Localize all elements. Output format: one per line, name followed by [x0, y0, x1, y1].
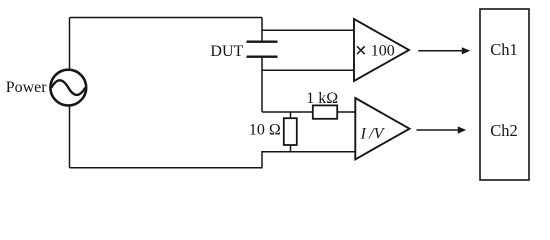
svg-text:100: 100 [371, 42, 395, 59]
svg-text:Power: Power [6, 79, 48, 96]
svg-text:Ch2: Ch2 [490, 121, 518, 140]
svg-text:I /V: I /V [360, 125, 386, 142]
svg-text:Ch1: Ch1 [490, 40, 518, 59]
svg-text:1 kΩ: 1 kΩ [306, 90, 338, 107]
svg-text:10 Ω: 10 Ω [249, 121, 281, 138]
svg-text:DUT: DUT [210, 43, 243, 60]
